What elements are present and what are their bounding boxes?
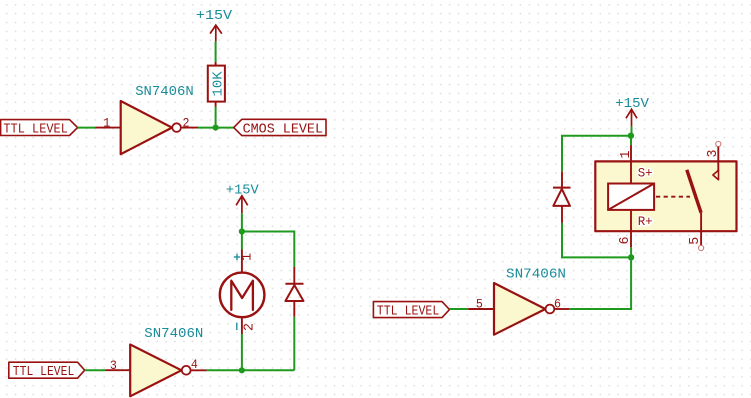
- global label TTL LEVEL (bottom-left): [9, 362, 85, 380]
- pin 3 of U1B: [105, 358, 130, 373]
- relay coil rectangle: [608, 184, 654, 210]
- svg-text:2: 2: [183, 115, 190, 130]
- wire label to pin5: [450, 308, 469, 310]
- svg-text:1: 1: [240, 253, 256, 261]
- wire label to pin1: [78, 127, 96, 129]
- power +15V (top): [196, 8, 233, 41]
- svg-text:TTL LEVEL: TTL LEVEL: [13, 364, 75, 380]
- svg-text:2: 2: [242, 323, 258, 331]
- global label TTL LEVEL (input, top-left): [1, 120, 78, 138]
- svg-text:4: 4: [191, 357, 198, 372]
- relay switch blade: [687, 170, 701, 213]
- svg-text:6: 6: [554, 296, 561, 311]
- svg-text:R+: R+: [638, 214, 653, 229]
- wire relay pin 6 to bottom node: [630, 247, 632, 257]
- wire diode bottom to motor bottom node: [293, 317, 295, 371]
- inverter U1B SN7406N: [130, 345, 190, 397]
- junction at motor bottom node: [239, 367, 245, 373]
- pin 4 of U1B: [191, 357, 207, 372]
- wire top node to relay pin 1: [630, 136, 632, 145]
- wire diode top to relay top node: [562, 136, 631, 172]
- diode D1 (relay flyback): [553, 171, 571, 223]
- relay pin 5 (common, unconnected): [687, 213, 704, 251]
- svg-text:10K: 10K: [211, 71, 227, 97]
- relay K1 body: [595, 161, 736, 231]
- wire bottom node left to diode: [562, 223, 631, 258]
- svg-text:+15V: +15V: [196, 8, 233, 24]
- junction relay top node: [628, 133, 634, 139]
- wire motor pin2 to junction: [241, 334, 243, 370]
- svg-text:3: 3: [705, 150, 721, 158]
- resistor R1 10K: [208, 62, 227, 107]
- junction at +15V node: [239, 228, 245, 234]
- wire pin2 to CMOS label: [198, 127, 234, 129]
- svg-text:1: 1: [618, 151, 634, 159]
- pin name + (teal) of motor pin 1: [234, 254, 240, 260]
- svg-text:+15V: +15V: [226, 182, 259, 198]
- wire pin6 right and up to relay bottom node: [569, 257, 631, 309]
- motor M1: [220, 250, 265, 335]
- power +15V (relay): [615, 96, 649, 127]
- svg-text:TTL LEVEL: TTL LEVEL: [377, 303, 440, 319]
- dashed link coil to switch: [656, 196, 690, 198]
- wire junction up to resistor: [215, 107, 217, 128]
- junction relay bottom node: [628, 254, 634, 260]
- svg-text:SN7406N: SN7406N: [506, 267, 566, 283]
- svg-text:1: 1: [103, 115, 110, 130]
- svg-text:SN7406N: SN7406N: [135, 84, 194, 100]
- wire junction down to motor: [241, 232, 243, 250]
- wire pin4 to junction and right: [207, 369, 295, 371]
- svg-text:6: 6: [617, 237, 633, 245]
- diode D2 (motor flyback): [285, 267, 303, 317]
- svg-text:+15V: +15V: [615, 96, 649, 112]
- svg-text:SN7406N: SN7406N: [144, 326, 203, 342]
- wire label to pin3: [85, 369, 106, 371]
- wire +15V to junction: [241, 213, 243, 231]
- svg-text:5: 5: [687, 237, 703, 245]
- global label CMOS LEVEL (output): [234, 119, 326, 137]
- wire +15V to relay top node: [631, 127, 633, 136]
- pin 5 of U1C: [468, 296, 494, 311]
- junction at pin2 node: [213, 125, 219, 131]
- relay pin 3 (contact, unconnected): [705, 141, 721, 179]
- wire resistor to +15V: [215, 41, 217, 62]
- global label TTL LEVEL (right): [373, 302, 449, 320]
- pin 2 of U1A: [181, 115, 198, 130]
- svg-text:5: 5: [476, 296, 483, 311]
- svg-text:3: 3: [110, 358, 117, 373]
- op-amp U1A inverter SN7406N: [121, 101, 181, 154]
- relay pin 1 (coil top): [618, 145, 634, 183]
- pin 1 of U1A: [96, 115, 121, 130]
- wire junction right to diode branch: [242, 232, 294, 268]
- svg-text:CMOS LEVEL: CMOS LEVEL: [243, 121, 323, 137]
- pin 6 of U1C: [554, 296, 569, 311]
- relay pin 6 (coil bottom): [617, 210, 633, 247]
- inverter U1C SN7406N: [494, 283, 554, 335]
- power +15V (motor): [226, 182, 259, 213]
- pin name - (teal) of motor pin 2 (rotated): [236, 323, 238, 331]
- svg-text:S+: S+: [638, 165, 653, 180]
- svg-text:TTL LEVEL: TTL LEVEL: [3, 121, 68, 137]
